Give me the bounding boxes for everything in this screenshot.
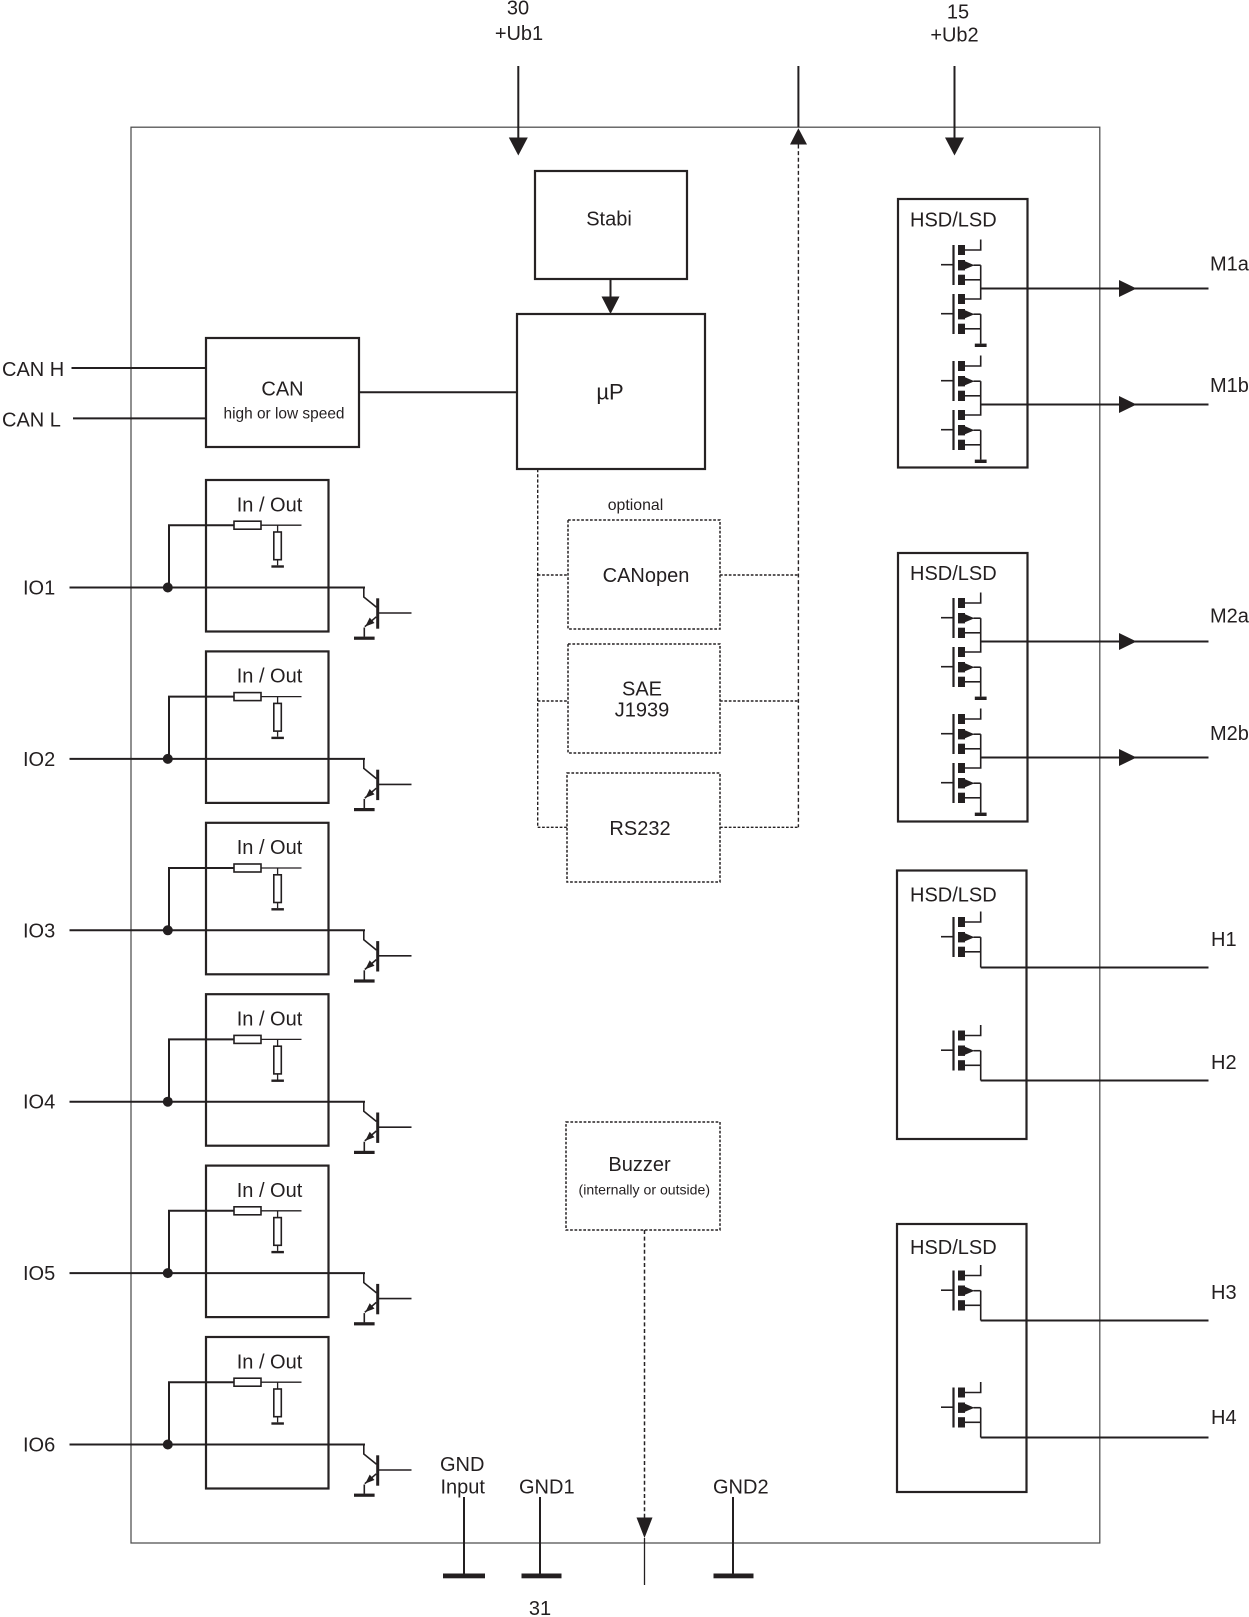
buzzer [566, 1122, 720, 1230]
transistor H1d [941, 912, 981, 958]
wire µP to optional modules (dashed) [537, 469, 539, 827]
ground Q6 [354, 1494, 375, 1497]
voltage regulator Stabi [535, 171, 687, 279]
driver block HSD/LSD 3 [897, 871, 1027, 1140]
wire IO4 line [70, 1101, 366, 1103]
svg-text:In / Out: In / Out [237, 666, 303, 688]
wire IO1 pull-up riser [169, 525, 234, 587]
svg-text:IO1: IO1 [23, 578, 55, 600]
ground R6b [271, 1422, 284, 1424]
wire +Ub1 supply arrow [517, 66, 519, 140]
wire M2a-pair high-side source to node [980, 618, 982, 641]
wire IO1 line [70, 587, 366, 589]
svg-text:HSD/LSD: HSD/LSD [910, 563, 997, 585]
wire IO2 line [70, 758, 366, 760]
wire feedback to top rail (up arrow) [797, 66, 799, 127]
wire M2a-pair low-side source to ground [980, 667, 982, 696]
transistor Q4 [364, 1102, 377, 1122]
wire IO6 line [70, 1444, 366, 1446]
ground R3b [271, 908, 284, 910]
wire +Ub2 supply arrow [954, 66, 956, 140]
node IO2 junction [163, 754, 173, 764]
In/Out block IO2 [206, 651, 329, 803]
transistor M1b-pairl [941, 405, 981, 451]
ground M1b-pair [975, 460, 987, 463]
wire IO2 pull-up riser [169, 697, 234, 759]
svg-text:In / Out: In / Out [237, 1009, 303, 1031]
transistor Q3 [364, 930, 377, 950]
CAN transceiver [206, 338, 359, 447]
resistor R6b [277, 1382, 279, 1389]
svg-text:Stabi: Stabi [586, 209, 632, 231]
wire IO5 pull-up riser [169, 1211, 234, 1273]
node IO4 junction [163, 1097, 173, 1107]
svg-text:RS232: RS232 [609, 818, 670, 840]
svg-text:Input: Input [441, 1477, 486, 1499]
driver block HSD/LSD 1 [898, 199, 1028, 468]
svg-text:Buzzer: Buzzer [608, 1154, 671, 1176]
RS232 module (optional) [567, 773, 720, 882]
svg-text:30: 30 [507, 0, 529, 20]
svg-text:CAN: CAN [261, 378, 303, 400]
transistor M1a-pairl [941, 289, 981, 335]
svg-text:high or low speed: high or low speed [224, 405, 345, 422]
SAE J1939 module (optional) [568, 644, 720, 753]
wire internal IO3 [261, 867, 302, 869]
transistor M1b-pairh [941, 356, 981, 402]
node IO3 junction [163, 925, 173, 935]
resistor R4a [234, 1035, 261, 1043]
wire M2b output [981, 757, 1209, 759]
svg-text:IO4: IO4 [23, 1092, 55, 1114]
wire M1b output [981, 404, 1209, 406]
driver block HSD/LSD 4 [897, 1224, 1027, 1492]
wire IO3 line [70, 929, 366, 931]
wire H3 output [980, 1291, 982, 1321]
transistor H4d [941, 1382, 981, 1428]
resistor R5a [234, 1207, 261, 1215]
svg-text:H3: H3 [1211, 1282, 1237, 1304]
ground GND Input [463, 1497, 465, 1574]
In/Out block IO5 [206, 1166, 329, 1318]
wire CAN H [72, 367, 207, 369]
svg-text:In / Out: In / Out [237, 1180, 303, 1202]
ground GND1 [539, 1497, 541, 1574]
ground GND2 [732, 1497, 734, 1574]
svg-text:+Ub2: +Ub2 [930, 25, 978, 47]
svg-text:J1939: J1939 [615, 700, 670, 722]
transistor Q6 [364, 1445, 377, 1465]
svg-text:IO6: IO6 [23, 1435, 55, 1457]
In/Out block IO1 [206, 480, 329, 632]
resistor R3a [234, 864, 261, 872]
wire Stabi to µP arrow [610, 279, 612, 298]
transistor Q2 [364, 759, 377, 779]
resistor R2a [234, 693, 261, 701]
svg-text:IO3: IO3 [23, 920, 55, 942]
transistor M2a-pairh [941, 593, 981, 639]
transistor Q1 [364, 588, 377, 608]
node IO6 junction [163, 1440, 173, 1450]
svg-text:M2b: M2b [1210, 723, 1249, 745]
svg-text:H1: H1 [1211, 929, 1237, 951]
ground Q1 [354, 637, 375, 640]
CANopen module (optional) [568, 520, 720, 629]
wire internal IO1 [261, 524, 302, 526]
wire internal IO6 [261, 1381, 302, 1383]
svg-text:(internally or outside): (internally or outside) [579, 1181, 711, 1197]
ground R5b [271, 1251, 284, 1253]
svg-text:H2: H2 [1211, 1052, 1237, 1074]
enclosure border [131, 127, 1100, 1543]
In/Out block IO4 [206, 994, 329, 1145]
node IO5 junction [163, 1268, 173, 1278]
wire internal IO2 [261, 696, 302, 698]
ground M1a-pair [975, 344, 987, 347]
svg-text:In / Out: In / Out [237, 837, 303, 859]
wire M2b-pair high-side source to node [980, 734, 982, 757]
ground M2b-pair [975, 813, 987, 816]
transistor Q5 [364, 1273, 377, 1293]
wire IO6 pull-up riser [169, 1382, 234, 1444]
node IO1 junction [163, 583, 173, 593]
ground M2a-pair [975, 697, 987, 700]
wire internal IO5 [261, 1210, 302, 1212]
resistor R3b [277, 868, 279, 875]
svg-text:HSD/LSD: HSD/LSD [910, 885, 997, 907]
svg-text:HSD/LSD: HSD/LSD [910, 210, 997, 232]
svg-text:CAN L: CAN L [2, 409, 61, 431]
svg-text:H4: H4 [1211, 1407, 1237, 1429]
svg-text:31: 31 [529, 1598, 551, 1617]
driver block HSD/LSD 2 [898, 553, 1028, 822]
svg-text:HSD/LSD: HSD/LSD [910, 1237, 997, 1259]
wire M1a-pair high-side source to node [980, 265, 982, 288]
wire CAN L [73, 417, 206, 419]
ground Q2 [354, 808, 375, 811]
svg-text:µP: µP [596, 379, 623, 404]
microcontroller µP [517, 314, 705, 469]
resistor R1b [277, 525, 279, 532]
svg-text:M1a: M1a [1210, 254, 1249, 276]
In/Out block IO6 [206, 1337, 329, 1489]
transistor M2a-pairl [941, 642, 981, 688]
wire internal IO4 [261, 1038, 302, 1040]
ground R1b [271, 565, 284, 567]
svg-text:15: 15 [947, 2, 969, 24]
svg-text:CAN H: CAN H [2, 359, 64, 381]
resistor R1a [234, 521, 261, 529]
svg-text:M1b: M1b [1210, 375, 1249, 397]
ground Q5 [354, 1322, 375, 1325]
transistor M1a-pairh [941, 240, 981, 286]
transistor H3d [941, 1265, 981, 1311]
transistor M2b-pairl [941, 758, 981, 804]
ground Q3 [354, 979, 375, 982]
svg-text:SAE: SAE [622, 678, 662, 700]
svg-text:+Ub1: +Ub1 [495, 23, 543, 45]
resistor R4b [277, 1039, 279, 1046]
wire M1b-pair high-side source to node [980, 381, 982, 404]
wire M1a-pair low-side source to ground [980, 314, 982, 343]
wire optional modules to top rail (dashed) [720, 574, 798, 576]
wire IO3 pull-up riser [169, 868, 234, 930]
wire H1 output [980, 937, 982, 967]
wire buzzer output (dashed, down arrow) [644, 1230, 646, 1518]
wire M1a output [981, 288, 1209, 290]
transistor M2b-pairh [941, 709, 981, 755]
ground R4b [271, 1080, 284, 1082]
svg-text:In / Out: In / Out [237, 494, 303, 516]
svg-text:IO5: IO5 [23, 1263, 55, 1285]
wire CAN to µP [359, 391, 517, 393]
svg-text:optional: optional [608, 497, 664, 514]
resistor R6a [234, 1378, 261, 1386]
wire M2a output [981, 641, 1209, 643]
In/Out block IO3 [206, 823, 329, 975]
svg-text:GND2: GND2 [713, 1477, 769, 1499]
ground Q4 [354, 1151, 375, 1154]
svg-text:M2a: M2a [1210, 605, 1249, 627]
svg-text:CANopen: CANopen [603, 565, 690, 587]
resistor R5b [277, 1211, 279, 1218]
svg-text:IO2: IO2 [23, 749, 55, 771]
ground R2b [271, 737, 284, 739]
svg-text:In / Out: In / Out [237, 1351, 303, 1373]
transistor H2d [941, 1025, 981, 1071]
wire H2 output [980, 1051, 982, 1081]
wire IO4 pull-up riser [169, 1039, 234, 1101]
wire IO5 line [70, 1272, 366, 1274]
wire H4 output [980, 1408, 982, 1438]
wire M1b-pair low-side source to ground [980, 430, 982, 459]
svg-text:GND1: GND1 [519, 1477, 575, 1499]
wire M2b-pair low-side source to ground [980, 783, 982, 812]
svg-text:GND: GND [440, 1454, 484, 1476]
resistor R2b [277, 697, 279, 704]
